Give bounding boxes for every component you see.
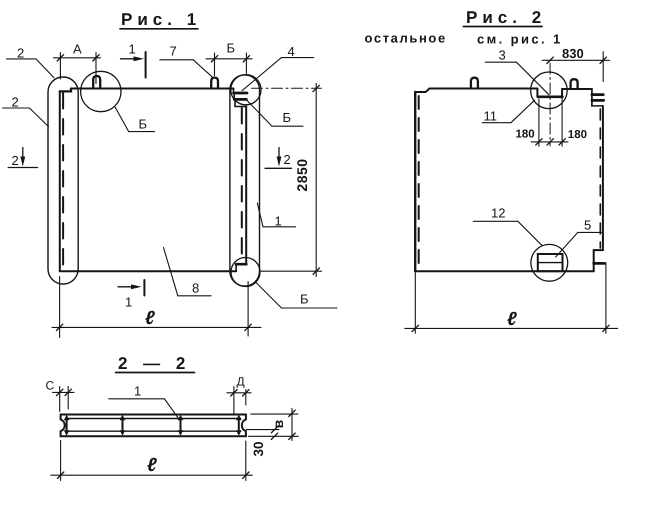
svg-text:4: 4	[288, 44, 295, 59]
label 4 underline	[281, 57, 313, 59]
section mark 1 top: arrow line	[121, 58, 140, 60]
dimension A: line	[54, 57, 101, 59]
panel P2 top edge left part	[430, 88, 538, 90]
section mark 2 left: arrowhead	[20, 157, 25, 167]
dimension 180: tick centre	[547, 139, 553, 145]
label 12 underline	[473, 220, 518, 222]
panel P2 top-right step vertical	[591, 89, 593, 106]
svg-text:7: 7	[170, 44, 177, 59]
label 3 leader	[516, 62, 549, 95]
dimension 2850: line	[315, 84, 317, 277]
dimension C: line	[53, 391, 75, 393]
dimension 2850: extension top (dash-dot)	[252, 87, 322, 89]
svg-text:2: 2	[17, 46, 24, 61]
dimension 2850: tick bottom	[313, 268, 319, 274]
panel P1 top-right tooth 2	[234, 98, 246, 101]
label 1 leader	[164, 399, 180, 421]
dimension B top: extension lines	[215, 53, 247, 76]
dimension 180: line	[531, 141, 568, 143]
section mark 2 right: arrow	[278, 148, 280, 161]
svg-text:2 — 2: 2 — 2	[118, 354, 191, 373]
dimension L fig1: tick left	[56, 324, 62, 330]
dimension L fig2: tick right	[603, 325, 609, 331]
vent block divider	[538, 262, 563, 264]
dimension L section: line	[51, 474, 253, 476]
panel P2 centre notch right wall	[561, 89, 563, 96]
dimension 2850: tick top	[313, 85, 319, 91]
panel P2 top-right tooth 1	[592, 93, 603, 96]
label 1 right underline	[263, 226, 296, 228]
panel P2 top-left shelf and chamfer	[415, 89, 429, 93]
dimension L fig2: extension right	[605, 263, 607, 333]
reinforcement cage top chord	[66, 418, 241, 420]
centre line of notch (dash-dot)	[549, 63, 551, 146]
slab outline with end notches	[61, 415, 246, 437]
label 12 leader	[518, 221, 542, 246]
section mark 2 right: arrowhead	[277, 157, 282, 167]
svg-text:Д: Д	[237, 375, 245, 389]
svg-text:А: А	[73, 42, 82, 57]
dimension L fig1: line	[52, 326, 261, 328]
panel P2 top-right shelf	[592, 105, 602, 107]
panel P1 top-left jog	[60, 89, 71, 92]
callout circle at bottom-right corner	[231, 258, 260, 287]
hidden line left (dashed)	[62, 93, 64, 268]
dimension 180: tick left	[536, 139, 542, 145]
dimension L section: tick right	[243, 472, 249, 478]
callout circle at vent block	[531, 244, 568, 281]
svg-text:180: 180	[516, 129, 535, 141]
dimension v: line	[291, 408, 293, 440]
panel P2 right edge	[602, 106, 604, 250]
svg-text:Б: Б	[139, 117, 148, 132]
label 5 leader	[556, 232, 578, 257]
svg-text:2: 2	[12, 153, 19, 168]
section mark 2 right: underline	[265, 167, 292, 169]
dimension A: extension lines	[60, 53, 96, 84]
rebar 4	[236, 415, 242, 436]
dimension D: tick left	[231, 390, 237, 396]
section mark 1 top: bar	[145, 52, 147, 78]
section mark 1 bottom: arrow line	[118, 286, 137, 288]
svg-text:30: 30	[251, 441, 266, 456]
svg-text:1: 1	[129, 42, 136, 57]
panel P1 left edge	[59, 91, 61, 271]
dimension v: tick top	[289, 410, 295, 416]
label B left leader	[115, 107, 128, 131]
label 4 leader	[242, 58, 281, 91]
svg-text:Б: Б	[300, 292, 309, 307]
svg-text:2850: 2850	[294, 158, 310, 191]
dimension A: tick left	[57, 55, 63, 61]
dimension 830: line	[542, 59, 609, 61]
dimension L fig2: line	[405, 327, 618, 329]
panel P1 bottom edge	[60, 270, 236, 272]
panel P2 centre notch left wall	[536, 89, 538, 97]
panel P1 outline top edge	[71, 88, 234, 90]
gasket capsule right	[230, 75, 260, 286]
vent block (detail 5)	[538, 254, 563, 271]
lifting loop 2	[211, 78, 218, 88]
dimension 180: extension left	[538, 99, 540, 146]
dimension L section: extension left	[60, 441, 62, 481]
panel P2 left edge	[414, 92, 416, 271]
panel P1 right edge	[245, 107, 247, 264]
dimension L fig1: extension left	[59, 277, 61, 338]
panel P1 top-right tooth 1	[234, 92, 248, 95]
dimension L section: extension right	[245, 441, 247, 481]
dimension C: extensions	[60, 387, 68, 412]
dimension L section: tick left	[57, 472, 63, 478]
label 2 upper leader	[36, 59, 54, 78]
dimension D: extensions	[234, 387, 246, 414]
label 2 upper underline	[7, 58, 36, 60]
section mark 1 bottom: bar	[143, 280, 145, 296]
svg-text:5: 5	[584, 218, 591, 233]
dimension 2850: extension bottom	[261, 270, 322, 272]
panel P1 bottom-right tooth	[236, 263, 246, 266]
panel P1 top-right shelf	[235, 106, 246, 108]
title underline	[116, 372, 195, 374]
hidden line right (dashed)	[599, 109, 601, 248]
label 7 leader	[193, 60, 213, 78]
dimension 30: tick top	[271, 426, 277, 432]
hidden line right (dashed)	[241, 108, 243, 262]
panel P1 bottom-right step vertical	[235, 264, 237, 271]
svg-text:ℓ: ℓ	[145, 308, 155, 329]
svg-text:ℓ: ℓ	[507, 309, 517, 330]
dimension v: extension bottom	[248, 435, 298, 437]
dimension B top: tick right	[243, 56, 249, 62]
section mark 2 left: underline	[8, 167, 37, 169]
callout circle at centre notch	[531, 72, 568, 109]
label B right-top underline	[272, 125, 303, 127]
lifting loop 1	[471, 78, 478, 89]
label B bottom-right underline	[282, 307, 338, 309]
label 8 leader	[164, 248, 178, 296]
dimension 830: tick left	[547, 57, 553, 63]
label 2 lower underline	[3, 107, 30, 109]
panel P1 top-right step verticals	[234, 89, 236, 107]
section mark 1 bottom: arrowhead	[131, 284, 142, 289]
svg-text:830: 830	[562, 46, 584, 61]
gasket capsule left (element 2)	[48, 77, 78, 284]
dimension 180: tick right	[559, 139, 565, 145]
hidden line left (dashed)	[418, 96, 420, 267]
dimension D: tick right	[243, 390, 249, 396]
lifting loop 1	[93, 76, 100, 88]
dimension L fig2: extension left	[414, 273, 416, 334]
title underline	[463, 26, 542, 28]
label 11 leader	[511, 100, 535, 123]
dimension C: tick left	[57, 389, 63, 395]
svg-text:1: 1	[134, 384, 141, 399]
panel P2 bottom edge	[415, 270, 594, 272]
panel P2 top edge right part	[562, 88, 592, 90]
dimension 180: extension right	[561, 98, 563, 146]
label B right-top leader	[247, 100, 272, 126]
svg-text:Рис. 2: Рис. 2	[466, 8, 546, 27]
panel P2 right bottom step	[594, 250, 603, 271]
label 1 right leader	[257, 203, 263, 227]
label 11 underline	[482, 122, 511, 124]
reinforcement cage bottom chord	[66, 430, 241, 432]
rebar 3	[178, 415, 184, 436]
rebar 2	[120, 415, 126, 436]
label 5 underline	[578, 231, 603, 233]
section mark 2 left: arrow	[22, 148, 24, 161]
dimension D: line	[227, 392, 251, 394]
svg-text:2: 2	[12, 95, 19, 110]
svg-text:8: 8	[192, 281, 199, 296]
label 8 underline	[178, 295, 211, 297]
panel P2 centre notch bottom	[538, 95, 562, 98]
svg-text:180: 180	[568, 129, 587, 141]
lifting loop 2	[571, 79, 578, 89]
dimension v: extension top	[251, 413, 298, 415]
dimension L fig1: extension right	[247, 282, 249, 337]
dimension 830: tick right	[600, 57, 606, 63]
panel P2 top-right tooth 2	[592, 99, 604, 102]
svg-text:С: С	[46, 379, 55, 393]
callout circle at top-right corner	[231, 75, 261, 105]
svg-text:Б: Б	[283, 110, 292, 125]
dimension C: tick right	[65, 389, 71, 395]
svg-text:3: 3	[499, 48, 506, 63]
title underline	[120, 28, 198, 30]
dimension 830: extension right	[602, 52, 604, 82]
dimension v: tick bottom	[289, 433, 295, 439]
rebar 1	[64, 415, 70, 436]
dimension v: extension mid	[246, 429, 279, 431]
panel P2 right bottom tooth	[594, 262, 605, 265]
label B left underline	[129, 131, 155, 133]
svg-text:11: 11	[484, 109, 498, 124]
label 3 underline	[485, 61, 516, 63]
label B bottom-right leader	[256, 283, 282, 309]
dimension A: tick right	[93, 55, 99, 61]
svg-text:2: 2	[284, 152, 291, 167]
callout circle B at loop1	[81, 71, 121, 111]
svg-text:Рис. 1: Рис. 1	[121, 10, 201, 29]
label 1 underline	[109, 398, 165, 400]
label 2 lower leader	[29, 108, 48, 127]
svg-text:12: 12	[491, 206, 505, 221]
dimension L fig2: tick left	[412, 325, 418, 331]
svg-text:Б: Б	[227, 41, 236, 56]
svg-text:ℓ: ℓ	[147, 455, 157, 476]
svg-text:остальное: остальное	[365, 31, 447, 46]
dimension 30: tick bottom	[271, 433, 277, 439]
svg-text:см. рис. 1: см. рис. 1	[477, 32, 563, 47]
dimension B top: line	[206, 58, 252, 60]
label 7 underline	[160, 59, 193, 61]
section mark 1 top: arrowhead	[134, 56, 145, 61]
svg-text:1: 1	[125, 295, 132, 310]
dimension L fig1: tick right	[245, 324, 251, 330]
dimension B top: tick left	[211, 56, 217, 62]
